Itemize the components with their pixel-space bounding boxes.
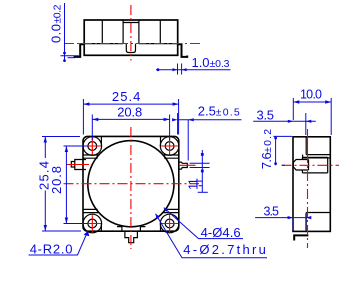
top view nozzle xyxy=(126,44,135,53)
dimension 10.0 xyxy=(293,98,331,135)
top view body outline xyxy=(84,20,178,55)
right tab centerline xyxy=(179,164,196,166)
hole TL crosshair xyxy=(84,138,101,155)
dimension 1.0±0.3 xyxy=(156,64,231,75)
dimension 0.0±0.2 xyxy=(61,3,80,62)
top view left lead xyxy=(75,44,85,57)
side body outline xyxy=(293,137,330,232)
side bottom step xyxy=(306,213,330,232)
top view vertical centerline xyxy=(130,5,132,61)
dimension 3.5 bottom xyxy=(255,214,311,231)
front horizontal centerline xyxy=(64,183,200,185)
svg-text:4-Ø2.7thru: 4-Ø2.7thru xyxy=(183,242,266,257)
dimension 3.5 top xyxy=(253,113,316,135)
svg-text:4-Ø4.6: 4-Ø4.6 xyxy=(201,225,241,240)
side tab centerline xyxy=(282,164,340,166)
corner pad TR xyxy=(160,137,179,156)
left tab centerline xyxy=(66,164,89,166)
svg-text:4-R2.0: 4-R2.0 xyxy=(30,242,73,257)
side step lines right bottom xyxy=(163,209,179,212)
svg-text:3.5: 3.5 xyxy=(264,205,280,219)
top view base seam line xyxy=(84,43,178,45)
svg-text:25.4: 25.4 xyxy=(112,89,140,104)
svg-text:3.5: 3.5 xyxy=(257,108,275,123)
svg-text:7.6±0.2: 7.6±0.2 xyxy=(259,129,274,170)
label 4-R2.0 xyxy=(29,231,90,255)
top view right lead xyxy=(178,44,188,57)
front body outline xyxy=(83,136,179,231)
dimension 20.8 left (vertical) xyxy=(64,146,89,224)
hole BR xyxy=(165,219,174,228)
label 4-Ø2.7 thru xyxy=(156,214,268,258)
side step lines left bottom xyxy=(83,209,99,212)
top view block divider left xyxy=(101,20,103,43)
corner pad TL xyxy=(83,137,102,156)
hole BL xyxy=(88,219,97,228)
side vertical centerline xyxy=(307,129,309,153)
dimension 25.4 top xyxy=(83,99,178,135)
bottom inner stubs xyxy=(117,227,145,232)
dimension 25.4 left (vertical) xyxy=(42,137,81,232)
dimension 20.8 top xyxy=(92,115,169,141)
svg-text:10.0: 10.0 xyxy=(300,88,322,102)
hole TR crosshair xyxy=(161,138,178,155)
top view block divider right xyxy=(159,20,161,43)
svg-text:2.5±0.5: 2.5±0.5 xyxy=(198,104,240,119)
left tab xyxy=(71,160,86,170)
top view center post xyxy=(123,20,139,43)
hole TL xyxy=(88,142,97,151)
dimension 1.1 cluster xyxy=(190,150,210,192)
side step lines right top xyxy=(163,155,179,158)
side step lines left top xyxy=(83,155,99,158)
hole TR xyxy=(165,142,174,151)
svg-text:20.8: 20.8 xyxy=(49,166,64,194)
label 4-Ø4.6 xyxy=(164,208,243,239)
dimension 7.6±0.2 xyxy=(273,136,292,165)
hole BL crosshair xyxy=(84,215,101,232)
right tab xyxy=(179,162,188,169)
hole BR crosshair xyxy=(161,215,178,232)
corner pad BR xyxy=(160,214,179,233)
svg-text:1.1: 1.1 xyxy=(185,178,200,190)
top view horizontal centerline xyxy=(64,43,203,45)
svg-text:1.0±0.3: 1.0±0.3 xyxy=(192,55,230,70)
side top inner lines xyxy=(306,137,330,155)
front big circle xyxy=(88,141,174,227)
front vertical centerline xyxy=(130,127,132,249)
corner pad BL xyxy=(83,214,102,233)
side bottom lead xyxy=(294,235,308,240)
side tab bullet xyxy=(302,157,327,173)
dimension 2.5±0.5 xyxy=(172,113,241,161)
svg-text:20.8: 20.8 xyxy=(117,105,142,120)
bottom tab xyxy=(125,231,137,243)
svg-text:0.0±0.2: 0.0±0.2 xyxy=(49,4,64,43)
